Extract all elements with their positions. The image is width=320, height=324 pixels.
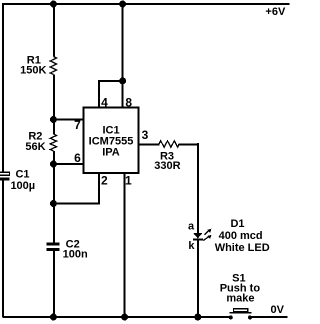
svg-text:150K: 150K [20, 65, 46, 77]
wire: LED column from R3 down to LED anode [197, 143, 199, 233]
node: 0V rail / LED column junction [194, 314, 201, 321]
wire: pin 4 vertical [98, 81, 100, 108]
svg-text:ICM7555: ICM7555 [89, 136, 134, 148]
svg-text:56K: 56K [25, 141, 45, 153]
node: pin 2 junction [50, 200, 57, 207]
node: 0V rail / pin 1 junction [121, 314, 128, 321]
svg-text:k: k [188, 240, 195, 252]
node: top rail / R1 column junction [50, 1, 57, 8]
svg-text:0V: 0V [270, 304, 284, 316]
wire: R1/R2 column from top rail to R1 [53, 3, 55, 57]
resistor R3 zigzag [159, 141, 179, 147]
wire: pin 8 column from top rail to IC [122, 3, 124, 108]
wire: pin 7 to R1/R2 column [53, 119, 83, 121]
op-amp timer IC1 box [84, 108, 139, 174]
wire: R3 to LED column horizontal [179, 144, 199, 146]
svg-text:330R: 330R [154, 160, 180, 172]
switch S1 bar [229, 312, 251, 314]
capacitor C2 bottom plate [47, 248, 60, 251]
LED D1 light arrow 2 [203, 235, 211, 241]
wire: 0V bottom rail right segment [250, 316, 288, 318]
svg-text:a: a [188, 221, 195, 233]
svg-text:C1: C1 [15, 168, 29, 180]
wire: 0V bottom rail left segment [3, 316, 232, 318]
capacitor C2 top plate [47, 242, 60, 245]
wire: left rail upper segment (top rail down to C1) [2, 3, 4, 173]
switch S1 right terminal [248, 315, 252, 319]
svg-text:D1: D1 [230, 218, 244, 230]
capacitor C1 top plate (+, hollow) [0, 172, 10, 175]
svg-text:100µ: 100µ [10, 180, 35, 192]
node: top rail / pin 8 column junction [119, 1, 126, 8]
svg-text:White LED: White LED [215, 242, 270, 254]
wire: pin 2 vertical [98, 173, 100, 204]
svg-text:100n: 100n [63, 249, 88, 261]
node: pin 4 / pin 8 connector junction [119, 77, 126, 84]
resistor R1 zigzag [50, 57, 56, 75]
wire: pin 4 to pin 8 connector [98, 80, 123, 82]
wire: left rail lower segment (C1 down to 0V rail) [2, 181, 4, 318]
wire: column from C2 to 0V rail [53, 251, 55, 318]
LED D1 light arrow 1 [204, 229, 211, 235]
switch S1 left terminal [229, 315, 233, 319]
svg-text:1: 1 [125, 174, 132, 188]
svg-text:3: 3 [142, 128, 149, 142]
wire: column from R2 down to C2 [53, 151, 55, 242]
LED D1 cathode bar [193, 239, 203, 241]
svg-text:8: 8 [125, 95, 132, 109]
LED D1 triangle (anode) [193, 233, 203, 239]
wire: column between R1 and R2 [53, 75, 55, 135]
svg-text:4: 4 [101, 95, 108, 109]
svg-text:6: 6 [74, 151, 81, 165]
node: pin 6 junction [50, 161, 57, 168]
resistor R2 zigzag [50, 134, 56, 151]
svg-text:make: make [226, 293, 254, 305]
wire: pin 6 to R1/R2 column [53, 163, 83, 165]
svg-text:400 mcd: 400 mcd [219, 230, 263, 242]
node: 0V rail / R-C column junction [50, 314, 57, 321]
wire: pin 3 out to R3 [139, 144, 160, 146]
wire: pin 2 horizontal to column [53, 203, 100, 205]
switch S1 button [233, 309, 247, 312]
wire: +6V top rail [3, 3, 290, 5]
svg-text:IPA: IPA [102, 147, 120, 159]
node: pin 7 junction [50, 116, 57, 123]
wire: LED cathode down to 0V rail [197, 240, 199, 318]
wire: pin 1 vertical down to 0V rail [124, 173, 126, 318]
svg-text:2: 2 [101, 174, 108, 188]
svg-text:7: 7 [74, 118, 81, 132]
svg-text:+6V: +6V [265, 6, 286, 18]
capacitor C1 bottom plate (solid) [0, 178, 10, 181]
